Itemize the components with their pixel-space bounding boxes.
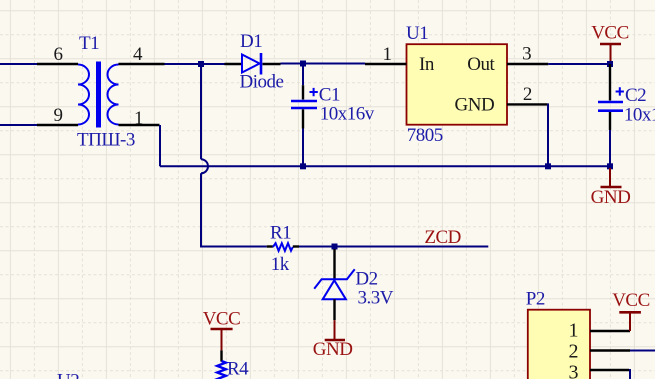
transformer T1 right winding	[108, 65, 119, 125]
capacitor C1 plates	[291, 100, 317, 103]
svg-text:1: 1	[569, 320, 579, 342]
svg-text:9: 9	[54, 105, 63, 126]
svg-text:C1: C1	[319, 85, 340, 106]
connector P2 body	[528, 310, 590, 379]
transformer T1 pin 6	[37, 63, 78, 65]
diode D1 cathode pin	[263, 63, 281, 65]
wire C2 to rail	[609, 130, 611, 166]
bottom rail wire	[160, 165, 610, 167]
svg-text:ZCD: ZCD	[424, 227, 461, 248]
svg-text:U1: U1	[406, 23, 428, 44]
P2 pin 3 stub	[590, 369, 629, 371]
capacitor C2 plus sign	[616, 87, 624, 95]
svg-text:3: 3	[522, 44, 531, 65]
svg-text:D1: D1	[240, 31, 262, 52]
wire node A down to hop	[200, 64, 202, 159]
resistor R4 top pin	[220, 350, 222, 361]
wire node B down	[302, 64, 304, 85]
node junction D2	[332, 244, 338, 250]
svg-text:10x16v: 10x16v	[320, 104, 375, 125]
svg-text:D2: D2	[355, 269, 377, 290]
power port GND (right rail)	[609, 168, 611, 187]
wire pin1 corner to rail	[159, 125, 161, 166]
svg-text:R4: R4	[227, 359, 249, 379]
svg-text:2: 2	[569, 341, 579, 363]
P2 pin 1 stub	[590, 330, 630, 332]
capacitor C2 bottom pin	[609, 112, 611, 130]
zener D2 triangle	[323, 280, 346, 299]
node A junction	[198, 61, 204, 67]
power port VCC (top right)	[600, 43, 621, 46]
U1 pin 3 stub	[507, 63, 548, 65]
wire U1 pin3 to VCC node	[548, 63, 610, 65]
transformer T1 pin 1	[119, 124, 160, 126]
resistor R1 zigzag	[273, 243, 293, 251]
svg-text:7805: 7805	[407, 125, 443, 146]
svg-text:GND: GND	[313, 339, 353, 360]
node junction pin2/rail	[545, 163, 551, 169]
svg-text:R1: R1	[270, 223, 291, 244]
svg-text:Diode: Diode	[240, 72, 284, 93]
regulator U1 body	[407, 44, 508, 125]
svg-text:T1: T1	[79, 33, 99, 54]
svg-text:4: 4	[133, 44, 143, 65]
P2 pin 2 stub	[590, 349, 630, 351]
diode D1 anode pin	[225, 63, 243, 65]
wire pin6 lead-in	[0, 63, 37, 65]
resistor R4 zigzag	[217, 361, 226, 379]
svg-text:In: In	[419, 54, 435, 75]
wire P2 pin3 corner down	[629, 370, 630, 379]
resistor R1 left pin	[267, 245, 273, 247]
transformer T1 pin 4	[119, 63, 165, 65]
U1 pin 1 stub	[365, 63, 407, 65]
diode D1 cathode bar	[260, 53, 263, 75]
svg-text:6: 6	[54, 44, 63, 65]
wire hop over rail	[201, 159, 208, 173]
node B junction (C1 top)	[300, 61, 306, 67]
wire pin9 lead-in	[0, 124, 37, 126]
svg-text:GND: GND	[591, 187, 631, 208]
wire C1 to rail	[302, 129, 304, 167]
svg-text:U2: U2	[57, 371, 79, 379]
wire R1 to ZCD	[299, 246, 488, 248]
svg-text:VCC: VCC	[612, 290, 650, 311]
node junction C1/rail	[300, 163, 306, 169]
power port GND (below D2)	[334, 320, 336, 339]
svg-text:P2: P2	[526, 289, 545, 310]
svg-text:Out: Out	[467, 54, 495, 75]
zener D2 cathode bar with tails	[314, 269, 355, 289]
U1 pin 2 stub	[507, 103, 548, 105]
wire pin4 to node A	[165, 63, 225, 65]
svg-text:ТПШ-3: ТПШ-3	[77, 130, 135, 151]
capacitor C1 top pin	[302, 85, 304, 99]
zener D2 anode pin	[333, 299, 335, 320]
svg-text:VCC: VCC	[203, 309, 241, 330]
zener D2 cathode pin	[333, 249, 335, 279]
capacitor C2 plates	[598, 101, 623, 104]
resistor R1 right pin	[293, 245, 299, 247]
wire hop to R1 row corner	[201, 173, 267, 246]
wire D1 to U1 pin1	[281, 63, 366, 65]
svg-text:2: 2	[523, 84, 532, 105]
wire P2 pin2	[630, 350, 655, 352]
wire U1 pin2 corner down	[547, 104, 549, 166]
diode D1 triangle	[242, 55, 260, 73]
node junction C2/rail	[607, 163, 613, 169]
transformer T1 pin 9	[37, 124, 78, 126]
svg-text:1: 1	[383, 44, 392, 65]
node junction VCC	[607, 61, 613, 67]
svg-text:3.3V: 3.3V	[358, 288, 394, 309]
svg-text:3: 3	[569, 362, 579, 379]
svg-text:C2: C2	[625, 85, 646, 106]
svg-text:10x16v: 10x16v	[624, 105, 655, 126]
capacitor C1 plus sign	[310, 88, 318, 96]
svg-text:GND: GND	[455, 95, 495, 116]
svg-text:VCC: VCC	[591, 23, 629, 44]
capacitor C1 bottom pin	[302, 109, 304, 128]
transformer T1 core	[96, 62, 101, 128]
transformer T1 left winding	[78, 65, 89, 125]
svg-text:1: 1	[134, 108, 143, 129]
svg-text:1k: 1k	[271, 254, 290, 275]
capacitor C2 top pin	[609, 64, 611, 101]
